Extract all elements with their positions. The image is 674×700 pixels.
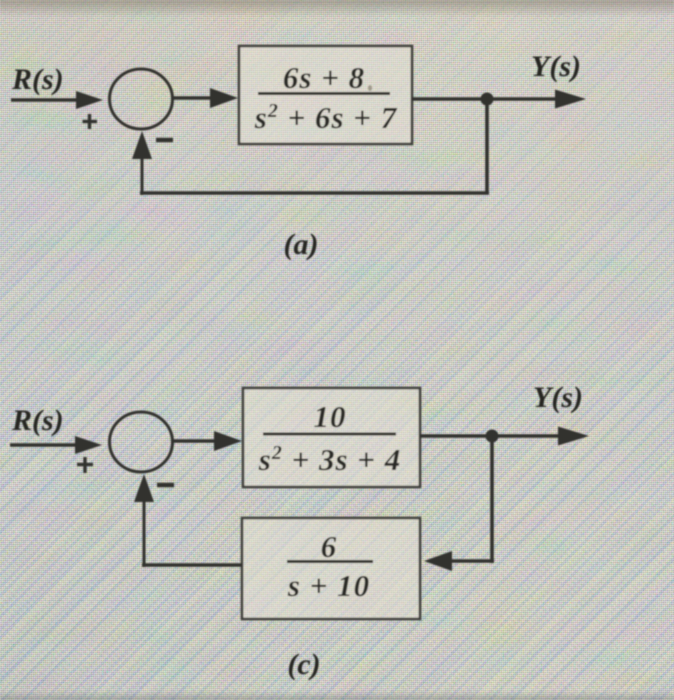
node: pickoff point on output (c): [486, 430, 499, 443]
svg-text:Y(s): Y(s): [531, 50, 581, 83]
svg-text:10: 10: [314, 399, 347, 434]
wire: feedback vertical drop from pickoff (a): [485, 99, 489, 193]
fraction bar feedback block (c): [287, 560, 373, 563]
wire: input R(s) to summing junction (a): [11, 98, 80, 102]
forward block 10/(s^2+3s+4): [243, 388, 420, 487]
svg-text:s + 10: s + 10: [287, 568, 370, 603]
svg-text:R(s): R(s): [11, 404, 64, 437]
arrowhead into summing junction bottom (a): [132, 131, 152, 159]
wire: feedback vertical drop from pickoff (c): [490, 436, 494, 563]
faint comma after numerator 8 (a): [368, 85, 372, 91]
wire: summing junction to block G (a): [172, 96, 212, 100]
plus sign at summing junction (c): [77, 463, 93, 466]
arrowhead into forward block (c): [214, 431, 242, 451]
wire: forward block output to Y(s) (c): [420, 434, 563, 438]
arrowhead into summing junction (c): [75, 436, 102, 454]
feedback block 6/(s+10): [242, 518, 420, 619]
svg-text:(c): (c): [287, 648, 320, 681]
arrowhead into summing junction (a): [76, 91, 103, 109]
arrowhead at Y(s) output (a): [555, 90, 586, 109]
fraction bar (a): [258, 92, 390, 95]
wire: input R(s) to summing junction (c): [10, 443, 78, 447]
summing junction circle (c): [110, 412, 173, 472]
wire: feedback block output leftward (c): [142, 563, 242, 567]
block G(s) = (6s+8)/(s^2+6s+7): [239, 46, 412, 144]
top dark photo edge: [0, 0, 674, 17]
arrowhead into feedback block (c): [424, 551, 452, 571]
minus sign at summing junction (c): [157, 483, 174, 488]
wire: block G output to Y(s) (a): [412, 97, 560, 101]
node: pickoff point on output (a): [481, 93, 494, 106]
wire: feedback horizontal run (a): [140, 191, 489, 195]
arrowhead into block G (a): [210, 88, 238, 108]
wire: summing junction to forward block (c): [172, 439, 218, 443]
bottom photo edge shadow: [0, 691, 674, 700]
plus sign at summing junction (a): [83, 120, 98, 123]
arrowhead at Y(s) output (c): [558, 427, 589, 446]
wire: feedback rise into summing junction (a): [141, 152, 144, 195]
svg-text:(a): (a): [284, 228, 319, 261]
wire: feedback into feedback block right side (c): [447, 559, 494, 563]
svg-text:6s + 8: 6s + 8: [283, 60, 365, 95]
wire: feedback rise into summing junction (c): [143, 498, 146, 567]
fraction bar forward block (c): [263, 433, 396, 436]
summing junction circle (a): [110, 69, 173, 129]
arrowhead into summing junction bottom (c): [134, 474, 154, 502]
minus sign at summing junction (a): [156, 138, 173, 143]
svg-text:Y(s): Y(s): [533, 381, 583, 414]
svg-text:R(s): R(s): [11, 63, 64, 96]
svg-text:6: 6: [321, 529, 338, 564]
